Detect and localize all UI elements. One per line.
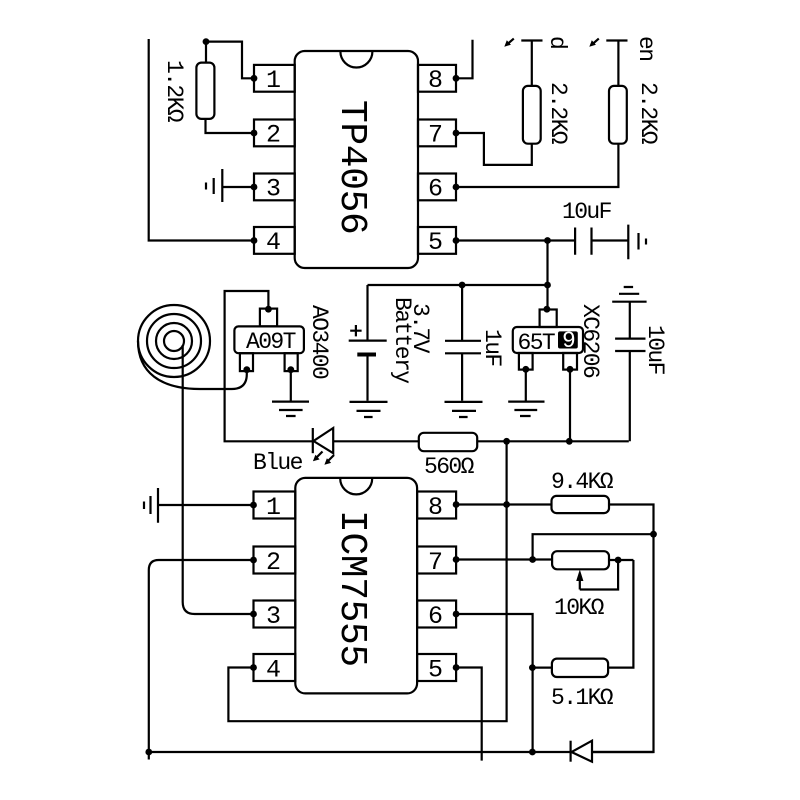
capacitor C3 10uF <box>615 302 645 442</box>
node rail-532 junction dot <box>529 749 536 756</box>
wire R2 top terminal <box>521 41 542 86</box>
transistor Q1 AO3400 drain pin <box>260 309 277 327</box>
node U3 vin junction dot <box>544 306 551 313</box>
svg-text:d: d <box>544 36 570 48</box>
capacitor C1 10uF plates <box>575 228 591 255</box>
wire LED to R4 <box>333 440 419 442</box>
ground at Q1 <box>272 402 309 416</box>
wire mid vertical 506 rail to U2 pin4 <box>228 441 506 721</box>
ground at U1 pin 3 (left-pointing) <box>206 169 222 202</box>
svg-text:1uF: 1uF <box>479 329 505 366</box>
resistor R6 5.1K body <box>552 659 608 677</box>
transistor Q1 body <box>234 326 304 353</box>
U1 pin 6 box <box>418 174 456 201</box>
svg-text:AO3400: AO3400 <box>306 305 332 379</box>
Q1 source pin box <box>285 353 298 371</box>
wire power rail 3.7V <box>368 284 548 286</box>
svg-text:6: 6 <box>428 602 443 631</box>
node U3 gnd junction dot <box>522 366 529 373</box>
node pin4 U1 junction dot <box>251 237 258 244</box>
svg-text:XC6206: XC6206 <box>577 304 603 378</box>
wire R5 to right rail down <box>592 505 654 753</box>
ground at U2 pin1 (left-pointing) <box>144 488 158 523</box>
svg-text:5.1KΩ: 5.1KΩ <box>551 685 614 711</box>
wire bypass rail to pin7 node <box>533 534 654 559</box>
U3 gnd pin box <box>519 353 533 370</box>
svg-text:5: 5 <box>428 228 443 257</box>
resistor R2 2.2K (d) body <box>523 86 541 144</box>
Q1 gate pin box <box>240 353 253 371</box>
node U2 pin8 junction dot <box>453 501 460 508</box>
U2 notch <box>340 478 372 494</box>
node U2 pin4 junction dot <box>250 664 257 671</box>
svg-text:ICM7555: ICM7555 <box>330 510 373 667</box>
op-amp U1 TP4056 body <box>295 51 418 268</box>
svg-text:7: 7 <box>428 548 443 577</box>
wire L1 outer tail to Q1 gate <box>138 341 247 389</box>
U1 pin 4 box <box>254 227 295 254</box>
node U2 pin2 junction dot <box>250 557 257 564</box>
wire Q1 source to ground <box>290 370 292 401</box>
ground at U3 <box>508 402 544 416</box>
potentiometer RV1 10K body <box>552 551 609 569</box>
U1 pin 3 box <box>254 174 295 201</box>
battery plus sign <box>350 325 361 336</box>
wire Q1 drain up-left-down to LED <box>225 291 313 441</box>
svg-text:6: 6 <box>428 175 443 204</box>
resistor R4 560 body <box>419 433 477 451</box>
wire U3 vout down to LED rail <box>569 369 571 441</box>
resistor R3 2.2K (en) body <box>609 86 627 144</box>
node pin1 U1 junction dot <box>251 75 258 82</box>
svg-text:2.2KΩ: 2.2KΩ <box>545 82 571 145</box>
svg-text:TP4056: TP4056 <box>330 100 373 234</box>
arrow at d terminal <box>508 39 514 44</box>
svg-text:10uF: 10uF <box>642 325 668 375</box>
wire pin6 to R3 bottom <box>456 144 618 187</box>
wire pin8 stub up <box>456 40 473 79</box>
svg-text:1: 1 <box>266 493 281 522</box>
capacitor C2 1uF <box>445 285 481 401</box>
op-amp U2 ICM7555 body <box>295 478 417 694</box>
svg-text:8: 8 <box>428 493 443 522</box>
wire L1 center tap down to U2 pin3 <box>183 345 254 614</box>
svg-text:7: 7 <box>428 121 443 150</box>
U2 pin 8 box <box>417 492 456 519</box>
battery BT1 <box>349 285 387 401</box>
svg-text:Battery: Battery <box>389 297 415 384</box>
node pin2 U1 junction dot <box>251 130 258 137</box>
wire U3 gnd to ground <box>525 369 527 400</box>
node pin3 U1 junction dot <box>251 184 258 191</box>
wire U2 pin6 down to R6 and rail <box>456 614 532 752</box>
wire R6 left lead <box>532 666 552 668</box>
svg-text:10uF: 10uF <box>562 199 612 225</box>
svg-text:3: 3 <box>266 175 281 204</box>
node Q1 gate junction dot <box>243 366 250 373</box>
diode D2 triangle <box>572 741 593 762</box>
node R1 top junction dot <box>203 38 210 45</box>
svg-text:1: 1 <box>266 66 281 95</box>
U1 notch <box>340 52 372 68</box>
svg-text:9.4KΩ: 9.4KΩ <box>551 469 614 495</box>
node U2 pin5 junction dot <box>453 664 460 671</box>
U1 pin 1 box <box>254 65 295 92</box>
LED D1 emission arrows <box>317 452 335 462</box>
RV1 wiper arrow <box>580 560 618 590</box>
arrow at en terminal <box>593 39 599 44</box>
wire R1 top to pin1 <box>206 42 254 79</box>
node U2 pin6 junction dot <box>453 611 460 618</box>
svg-text:4: 4 <box>266 228 281 257</box>
U2 pin 2 box <box>254 547 296 574</box>
LED D1 cathode bar <box>312 428 314 453</box>
node R6 left junction dot <box>529 664 536 671</box>
node C1 branch junction dot <box>544 237 551 244</box>
battery BT1 short plate <box>357 353 376 357</box>
svg-text:2: 2 <box>266 121 281 150</box>
svg-text:1.2KΩ: 1.2KΩ <box>161 60 187 123</box>
LED D1 triangle <box>314 428 334 453</box>
wire R4 to rail right <box>477 440 629 442</box>
node pin8 U1 junction dot <box>453 75 460 82</box>
node pin7 U1 junction dot <box>453 130 460 137</box>
node Q1 drain junction dot <box>265 306 272 313</box>
U2 pin 6 box <box>417 601 456 628</box>
ground at C1 (right-pointing) <box>628 225 646 260</box>
ground at C2 <box>445 402 483 417</box>
wire pin5 to C1 <box>456 239 575 241</box>
U2 pin 5 box <box>417 654 456 681</box>
wire U2 pin2 to bottom rail <box>149 560 254 752</box>
wire bottom rail <box>149 751 571 753</box>
U2 pin 3 box <box>254 601 296 628</box>
svg-text:en: en <box>633 36 659 60</box>
U1 pin 2 box <box>254 120 295 147</box>
svg-text:3: 3 <box>266 602 281 631</box>
svg-text:560Ω: 560Ω <box>424 454 475 480</box>
wire pin5 node down to power rail <box>546 241 548 310</box>
node U2 pin7 junction dot <box>453 556 460 563</box>
diode D2 cathode bar <box>569 741 571 762</box>
node right rail junction dot <box>650 531 657 538</box>
U1 pin 8 box <box>418 65 456 92</box>
node Q1 source junction dot <box>287 366 294 373</box>
wire ground to pin3 <box>222 186 254 188</box>
resistor R1 1.2K body <box>196 63 214 119</box>
node rail-vout junction dot <box>566 438 573 445</box>
ground at battery <box>350 402 388 417</box>
wire pin7 to R2 bottom <box>456 133 532 165</box>
wire C1 to ground <box>592 239 629 241</box>
wire U2 pin8 to R5 <box>456 503 551 505</box>
wire U2 pin5 down <box>456 668 482 761</box>
wire U2 pin7 to RV1 <box>456 558 552 560</box>
node rail-U3 junction dot <box>544 282 551 289</box>
wire diode to right rail <box>592 751 654 753</box>
resistor R5 9.4K body <box>552 496 610 513</box>
node rail-C2 junction dot <box>459 282 466 289</box>
wire R1 bottom to pin2 <box>206 119 255 133</box>
U1 pin 7 box <box>418 120 456 147</box>
svg-text:2.2KΩ: 2.2KΩ <box>635 82 661 145</box>
wire ground to U2 pin1 <box>158 504 254 506</box>
node rail-506 junction dot <box>503 438 510 445</box>
inductor L1 coil rings <box>138 305 210 377</box>
svg-text:10KΩ: 10KΩ <box>554 595 605 621</box>
node U3 vout junction dot <box>567 366 574 373</box>
wire stub below bottom-left dot <box>148 752 150 760</box>
node bottom-left junction dot <box>145 749 152 756</box>
svg-text:9: 9 <box>562 328 575 354</box>
wire RV1 to R6 right lead <box>608 560 633 668</box>
svg-text:A09T: A09T <box>246 329 296 355</box>
svg-text:4: 4 <box>266 656 281 685</box>
wire R3 top terminal <box>606 41 627 86</box>
svg-text:Blue: Blue <box>253 450 303 476</box>
node pin5 U1 junction dot <box>453 237 460 244</box>
U3 marking 9 inverted <box>558 331 578 348</box>
wire RV1 right lead <box>609 559 633 561</box>
ground above C3 (up-pointing) <box>612 287 646 302</box>
U1 pin 5 box <box>418 227 456 254</box>
U2 pin 7 box <box>417 547 456 574</box>
regulator U3 body <box>513 327 583 353</box>
wire left rail from pin4 of U1 <box>149 39 254 241</box>
node RV1 wiper junction dot <box>615 557 622 564</box>
node mid-pin8wire junction dot <box>503 501 510 508</box>
regulator U3 XC6206 top pin <box>540 310 557 328</box>
node pin7-bypass junction dot <box>529 556 536 563</box>
node U2 pin3 junction dot <box>250 611 257 618</box>
node U2 pin1 junction dot <box>250 502 257 509</box>
svg-text:2: 2 <box>266 548 281 577</box>
U2 pin 4 box <box>254 654 296 681</box>
U2 pin 1 box <box>254 492 296 519</box>
svg-text:5: 5 <box>428 656 443 685</box>
svg-text:8: 8 <box>428 66 443 95</box>
U3 vout pin box <box>563 353 577 370</box>
node pin6 U1 junction dot <box>453 184 460 191</box>
